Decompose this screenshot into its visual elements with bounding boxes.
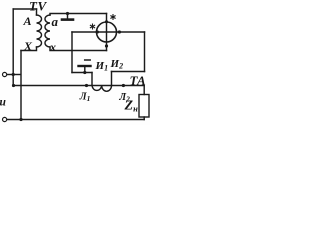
wire u top terminal y74.5: [7, 74, 21, 76]
svg-text:И2: И2: [110, 58, 124, 71]
wattmeter cross vertical: [106, 22, 108, 42]
polarity asterisk left: [90, 24, 95, 30]
terminal circle u top: [3, 72, 7, 76]
transformer TV primary winding: [37, 15, 42, 47]
svg-text:a: a: [52, 14, 59, 29]
wire stub winding top: [36, 9, 38, 15]
wire vertical x21 (X to bottom rail): [20, 51, 22, 120]
node dot wattmeter top: [105, 20, 108, 23]
wire vertical x72 down from current coil: [71, 32, 73, 73]
wire wattmeter current line y32: [72, 31, 145, 33]
wire bottom rail y119.5: [7, 119, 145, 121]
wire secondary top lead a y13.5: [50, 14, 107, 16]
svg-text:A: A: [23, 14, 32, 28]
node dot Л2: [122, 84, 125, 87]
terminal circle u bottom: [3, 117, 7, 121]
wire right vertical x144.5 (current return): [144, 32, 146, 72]
node dot ground1: [66, 12, 69, 15]
wire И1 horizontal y72.5: [72, 72, 92, 74]
wire И2 lead down x111.5: [111, 72, 113, 86]
wire top-left horizontal y9: [13, 8, 36, 10]
node dot wattmeter bottom: [105, 44, 108, 47]
node dot wattmeter right: [118, 30, 121, 33]
wire И2 horizontal y71.5: [112, 71, 145, 73]
svg-text:Zн: Zн: [124, 99, 139, 114]
resistor Zн box: [139, 95, 149, 118]
ground 2 top dash: [85, 59, 91, 61]
svg-text:X: X: [23, 39, 33, 53]
wattmeter W circle: [97, 22, 117, 42]
node dot wattmeter left: [96, 30, 99, 33]
ground 2 stub: [84, 66, 86, 73]
node dot A junction: [12, 73, 15, 76]
node dot bottom rail x21: [19, 118, 22, 121]
transformer TV secondary winding: [45, 15, 50, 47]
svg-text:Л1: Л1: [79, 92, 91, 104]
ground 1 bar: [62, 18, 73, 21]
wire secondary bottom lead x y50.5: [50, 47, 107, 51]
wire left vertical x13 (A side): [12, 9, 14, 85]
ground 1 stub: [67, 14, 69, 19]
wire wattmeter voltage branch vertical x106.5: [106, 14, 108, 51]
wire drop to load x144.2: [143, 86, 145, 95]
node dot Л1: [85, 84, 88, 87]
polarity asterisk right: [110, 14, 115, 20]
current transformer TA secondary arcs: [92, 86, 112, 92]
wire load bottom stub: [143, 117, 145, 120]
node dot TA line start: [12, 84, 15, 87]
svg-text:И1: И1: [95, 60, 109, 73]
ground 2 bar: [79, 65, 91, 67]
wattmeter cross horizontal: [97, 31, 117, 33]
svg-text:x: x: [49, 40, 56, 54]
wire TA primary line y85.5: [14, 85, 145, 87]
svg-text:TV: TV: [29, 0, 47, 14]
wire И1 lead down x92: [91, 73, 93, 86]
svg-text:TA: TA: [130, 73, 147, 88]
node dot ground2: [83, 71, 86, 74]
wire primary bottom lead: [21, 47, 37, 51]
svg-text:u: u: [0, 97, 7, 109]
